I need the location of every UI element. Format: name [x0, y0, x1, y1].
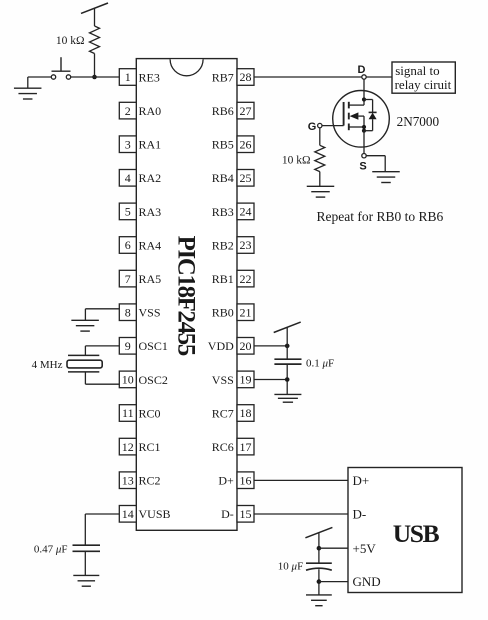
note: Repeat for RB0 to RB6: [317, 209, 444, 224]
svg-text:RC2: RC2: [139, 474, 161, 488]
junction node at VDD: [285, 344, 290, 349]
label C3 value 10 uF: [278, 561, 303, 573]
svg-text:RA0: RA0: [139, 104, 162, 118]
svg-text:RE3: RE3: [139, 70, 160, 84]
svg-text:RA1: RA1: [139, 138, 162, 152]
pin 17 (RC6) of U1: [212, 438, 254, 455]
svg-text:10 μF: 10 μF: [278, 561, 303, 573]
svg-text:RC7: RC7: [212, 406, 234, 420]
wire SW1 left contact to ground: [28, 77, 52, 88]
label node G: [308, 121, 317, 133]
svg-text:D+: D+: [218, 474, 234, 488]
svg-text:GND: GND: [353, 574, 381, 589]
pin 24 (RB3) of U1: [212, 203, 254, 220]
wire C2 to VSS node and ground: [286, 364, 288, 394]
svg-text:RB3: RB3: [212, 205, 234, 219]
svg-text:D-: D-: [221, 507, 234, 521]
svg-text:9: 9: [125, 339, 131, 353]
label R1 value 10 kOhm: [56, 35, 85, 47]
svg-text:RC6: RC6: [212, 440, 234, 454]
pin 10 (OSC2) of U1: [119, 371, 168, 388]
pin 19 (VSS) of U1: [212, 371, 254, 388]
label node S: [359, 161, 366, 173]
pin 4 (RA2) of U1: [119, 170, 161, 187]
node D drain terminal: [362, 75, 366, 79]
svg-text:RB1: RB1: [212, 272, 234, 286]
source terminal node S: [362, 154, 366, 158]
svg-text:RC0: RC0: [139, 406, 161, 420]
pin 2 (RA0) of U1: [119, 102, 161, 119]
svg-text:1: 1: [125, 70, 131, 84]
svg-text:G: G: [308, 121, 317, 133]
wire power tick to +5V node: [318, 533, 320, 564]
svg-text:VSS: VSS: [212, 373, 234, 387]
svg-text:21: 21: [240, 305, 252, 319]
pin 8 (VSS) of U1: [119, 304, 160, 321]
ground symbol at VSS pin 8: [71, 320, 99, 331]
svg-text:D+: D+: [353, 473, 370, 488]
svg-text:27: 27: [240, 104, 252, 118]
junction node at +5V: [317, 546, 322, 551]
power rail tick V+ at VDD: [274, 322, 301, 332]
svg-text:20: 20: [240, 339, 252, 353]
svg-text:10 kΩ: 10 kΩ: [282, 154, 311, 166]
svg-text:4: 4: [125, 171, 131, 185]
svg-text:OSC1: OSC1: [139, 339, 168, 353]
ground symbol at SW1: [14, 88, 42, 99]
pin 15 (D-) of U1: [221, 506, 254, 523]
junction node at VSS: [285, 377, 290, 382]
svg-text:4 MHz: 4 MHz: [32, 359, 63, 371]
ground symbol at Q1 source: [372, 172, 400, 183]
svg-text:15: 15: [240, 507, 252, 521]
svg-text:10 kΩ: 10 kΩ: [56, 35, 85, 47]
svg-text:S: S: [359, 161, 366, 173]
wire C1 to ground: [84, 551, 86, 575]
label Y1 value 4 MHz: [32, 359, 63, 371]
pin 12 (RC1) of U1: [119, 438, 160, 455]
IC U1 PIC18F2455 body: [136, 59, 237, 531]
wire R1 to node at pin 1: [94, 54, 96, 78]
svg-text:19: 19: [240, 373, 252, 387]
svg-text:10: 10: [122, 373, 134, 387]
svg-text:RB4: RB4: [212, 171, 234, 185]
pin 20 (VDD) of U1: [208, 338, 254, 355]
wire pin 15 D- to USB: [254, 513, 348, 515]
pin 5 (RA3) of U1: [119, 203, 161, 220]
svg-text:D: D: [358, 64, 366, 76]
wire GND node to USB: [319, 581, 348, 583]
svg-text:0.1 μF: 0.1 μF: [306, 358, 334, 370]
svg-text:OSC2: OSC2: [139, 373, 168, 387]
box: signal to relay ciruit: [392, 62, 455, 93]
junction node at GND: [317, 579, 322, 584]
svg-text:PIC18F2455: PIC18F2455: [173, 236, 200, 356]
svg-text:RB0: RB0: [212, 306, 234, 320]
power rail tick V+ (top left): [81, 3, 108, 13]
pin 13 (RC2) of U1: [119, 472, 160, 489]
pin 7 (RA5) of U1: [119, 270, 161, 287]
svg-text:26: 26: [240, 137, 252, 151]
pin 26 (RB5) of U1: [212, 136, 254, 153]
wire pin 8 VSS to ground: [85, 309, 119, 321]
capacitor C2 0.1 uF: [274, 359, 301, 364]
pin 1 (RE3) of U1: [119, 69, 160, 86]
capacitor C3 10 uF: [306, 563, 332, 570]
pin 11 (RC0) of U1: [119, 405, 160, 422]
wire pin 9 OSC1 to crystal Y1: [85, 346, 119, 356]
wire +5V node to USB: [319, 547, 348, 549]
svg-text:RB5: RB5: [212, 138, 234, 152]
svg-text:D-: D-: [353, 506, 367, 521]
ground symbol at R2: [307, 186, 335, 197]
svg-text:13: 13: [122, 473, 134, 487]
label C2 value 0.1 uF: [306, 358, 334, 370]
IC U1 label PIC18F2455: [173, 236, 200, 356]
svg-text:RB6: RB6: [212, 104, 234, 118]
svg-text:17: 17: [240, 440, 252, 454]
pin 22 (RB1) of U1: [212, 270, 254, 287]
wire R2 to ground: [319, 172, 321, 187]
wire power tick to VDD node: [286, 327, 288, 359]
pin 28 (RB7) of U1: [212, 69, 254, 86]
svg-text:12: 12: [122, 440, 134, 454]
label Q1 part number 2N7000: [397, 114, 440, 129]
svg-text:16: 16: [240, 473, 252, 487]
svg-text:24: 24: [240, 205, 252, 219]
svg-text:22: 22: [240, 272, 252, 286]
svg-text:RB7: RB7: [212, 70, 234, 84]
svg-text:3: 3: [125, 137, 131, 151]
svg-text:RA3: RA3: [139, 205, 162, 219]
svg-text:18: 18: [240, 406, 252, 420]
resistor R1 10 kOhm: [90, 26, 100, 54]
svg-text:7: 7: [125, 272, 131, 286]
svg-text:23: 23: [240, 238, 252, 252]
svg-text:25: 25: [240, 171, 252, 185]
svg-text:RA5: RA5: [139, 272, 162, 286]
svg-text:VSS: VSS: [139, 306, 161, 320]
gate terminal node G: [318, 123, 322, 127]
svg-text:28: 28: [240, 70, 252, 84]
svg-text:RA4: RA4: [139, 238, 162, 252]
pin 27 (RB6) of U1: [212, 102, 254, 119]
ground symbol at C1: [73, 575, 99, 586]
wire gate node to resistor R2: [319, 128, 321, 146]
wire source node to ground: [366, 156, 385, 172]
label C1 value 0.47 uF: [34, 543, 68, 555]
wire pin 28 RB7 to node D and relay box: [254, 76, 392, 78]
junction node at RE3 / pin 1: [92, 75, 97, 80]
svg-text:USB: USB: [393, 519, 440, 548]
svg-text:5: 5: [125, 205, 131, 219]
svg-text:RB2: RB2: [212, 238, 234, 252]
svg-text:relay ciruit: relay ciruit: [395, 77, 452, 92]
pin 25 (RB4) of U1: [212, 170, 254, 187]
svg-text:VDD: VDD: [208, 339, 234, 353]
USB connector J1 box: [348, 468, 462, 593]
svg-text:0.47 μF: 0.47 μF: [34, 543, 68, 555]
label node D: [358, 64, 366, 76]
svg-text:signal to: signal to: [395, 63, 439, 78]
svg-text:2: 2: [125, 104, 131, 118]
svg-text:2N7000: 2N7000: [397, 114, 440, 129]
svg-text:14: 14: [122, 507, 134, 521]
pin 14 (VUSB) of U1: [119, 506, 170, 523]
label R2 value 10 kOhm: [282, 154, 311, 166]
wire node to pin 1 RE3: [95, 76, 120, 78]
wire C3 to GND node and ground: [318, 569, 320, 595]
pin 18 (RC7) of U1: [212, 405, 254, 422]
svg-text:RC1: RC1: [139, 440, 161, 454]
ground symbol at C2: [274, 394, 301, 402]
wire pin 20 VDD to node: [254, 345, 287, 347]
wire node to pushbutton SW1 right contact: [71, 76, 95, 78]
svg-text:8: 8: [125, 305, 131, 319]
wire power tick to resistor R1: [94, 8, 96, 26]
power rail tick +5V: [305, 527, 332, 537]
wire crystal Y1 to pin 10 OSC2: [85, 372, 119, 384]
wire pin 14 VUSB to capacitor C1: [85, 514, 119, 545]
crystal Y1 4 MHz: [67, 355, 102, 372]
pin 23 (RB2) of U1: [212, 237, 254, 254]
svg-text:Repeat for RB0 to RB6: Repeat for RB0 to RB6: [317, 209, 444, 224]
svg-text:RA2: RA2: [139, 171, 162, 185]
pushbutton switch SW1: [51, 57, 70, 79]
wire node D to transistor Q1 drain: [363, 79, 365, 90]
svg-text:6: 6: [125, 238, 131, 252]
svg-text:+5V: +5V: [353, 541, 377, 556]
svg-text:VUSB: VUSB: [139, 507, 171, 521]
capacitor C1 0.47 uF: [73, 545, 101, 551]
pin 16 (D+) of U1: [218, 472, 254, 489]
pin 6 (RA4) of U1: [119, 237, 161, 254]
transistor Q1 2N7000 N-MOSFET: [322, 91, 389, 154]
resistor R2 10 kOhm: [315, 145, 325, 171]
pin 21 (RB0) of U1: [212, 304, 254, 321]
pin 3 (RA1) of U1: [119, 136, 161, 153]
svg-text:11: 11: [122, 406, 134, 420]
pin 9 (OSC1) of U1: [119, 338, 168, 355]
wire pin 16 D+ to USB: [254, 479, 348, 481]
ground symbol at USB GND: [306, 595, 332, 606]
wire pin 19 VSS to node: [254, 379, 287, 381]
